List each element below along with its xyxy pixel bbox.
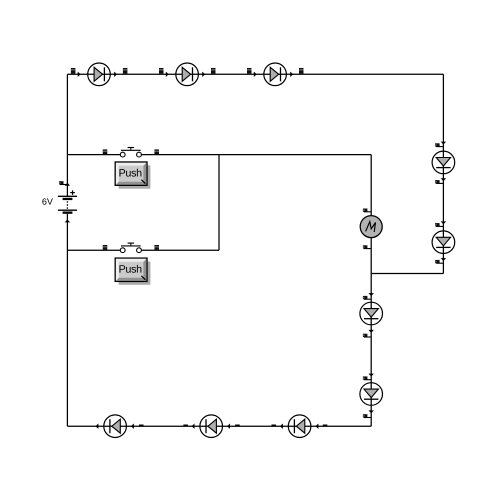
wire top (battery+ to right side) bbox=[67, 73, 443, 75]
push button widget SW1 bbox=[115, 162, 150, 189]
motor M1 bbox=[360, 216, 382, 238]
push button widget SW2 bbox=[115, 258, 150, 285]
current arrow before D3 bbox=[254, 72, 257, 77]
terminal marker battery positive bbox=[59, 181, 67, 184]
terminal marker D7 anode bbox=[363, 376, 371, 379]
terminal marker D6 cathode bbox=[363, 334, 371, 337]
terminal marker D6 anode bbox=[363, 296, 371, 299]
diode D10 bbox=[288, 415, 311, 438]
diode D3 bbox=[264, 63, 287, 86]
diode D1 bbox=[88, 63, 111, 86]
terminal marker D2 cathode bbox=[211, 68, 216, 74]
diode D4 bbox=[432, 151, 455, 174]
terminal marker SW2 left bbox=[103, 245, 108, 250]
current arrow before D10 bbox=[315, 424, 318, 429]
current arrow before D4 bbox=[441, 142, 446, 145]
terminal marker D10 cathode bbox=[272, 425, 277, 427]
terminal marker SW1 right bbox=[154, 149, 159, 154]
current arrow after D4 bbox=[441, 178, 446, 181]
diode D7 bbox=[360, 383, 383, 406]
current arrow before D6 bbox=[369, 293, 374, 296]
terminal marker D5 cathode bbox=[435, 260, 443, 263]
terminal marker D3 cathode bbox=[299, 68, 304, 74]
terminal marker D4 anode bbox=[435, 143, 443, 146]
terminal marker SW2 right bbox=[154, 245, 159, 250]
current arrow before D9 bbox=[227, 424, 230, 429]
terminal marker D3 anode bbox=[247, 68, 252, 74]
terminal marker D5 anode bbox=[435, 223, 443, 226]
terminal marker SW1 left bbox=[103, 149, 108, 154]
diode D9 bbox=[200, 415, 223, 438]
terminal marker D8 anode bbox=[139, 425, 144, 427]
wire inner vertical (parallel link between switch branches) bbox=[218, 155, 220, 251]
push switch SW2 contacts bbox=[120, 243, 141, 253]
wire connector (right vertical to motor branch) bbox=[371, 273, 443, 275]
terminal marker M1 top bbox=[363, 209, 371, 212]
diode D2 bbox=[176, 63, 199, 86]
terminal marker D1 cathode bbox=[123, 68, 128, 74]
current arrow after D9 bbox=[192, 424, 195, 429]
current arrow above battery bbox=[65, 183, 70, 186]
wire motor branch vertical bbox=[370, 155, 372, 427]
current arrow after D10 bbox=[280, 424, 283, 429]
wire right vertical bbox=[442, 74, 444, 273]
terminal marker M1 bottom bbox=[363, 245, 371, 248]
current arrow after D3 bbox=[290, 72, 293, 77]
diode D6 bbox=[360, 302, 383, 325]
diode D5 bbox=[432, 231, 455, 254]
terminal marker D4 cathode bbox=[435, 180, 443, 183]
wire switch-1 branch left segment bbox=[67, 154, 120, 156]
terminal marker D9 cathode bbox=[183, 425, 188, 427]
current arrow after D7 bbox=[369, 410, 374, 413]
wire switch-1 branch right segment (to motor branch) bbox=[141, 154, 371, 156]
current arrow before D8 bbox=[131, 424, 134, 429]
terminal marker D10 anode bbox=[323, 425, 328, 427]
push switch SW1 contacts bbox=[120, 148, 141, 158]
current arrow after D6 bbox=[369, 330, 374, 333]
wire bottom bbox=[67, 425, 371, 427]
current arrow below battery bbox=[65, 219, 70, 222]
terminal marker D9 anode bbox=[235, 425, 240, 427]
current arrow after D1 bbox=[114, 72, 117, 77]
current arrow before D2 bbox=[166, 72, 169, 77]
current arrow before D7 bbox=[369, 374, 374, 377]
terminal marker D2 anode bbox=[159, 68, 164, 74]
current arrow after D2 bbox=[202, 72, 205, 77]
current arrow before D5 bbox=[441, 221, 446, 224]
wire left vertical lower (battery- down to bottom wire) bbox=[66, 214, 68, 427]
terminal marker D7 cathode bbox=[363, 414, 371, 417]
terminal marker D1 anode bbox=[71, 68, 76, 74]
current arrow before D1 bbox=[78, 72, 81, 77]
battery plus sign bbox=[70, 190, 75, 195]
wire switch-2 branch left segment bbox=[67, 249, 120, 251]
diode D8 bbox=[104, 415, 127, 438]
current arrow after D5 bbox=[441, 258, 446, 261]
wire switch-2 branch right segment bbox=[141, 249, 219, 251]
battery B1 6V bbox=[58, 196, 77, 212]
current arrow after D8 bbox=[95, 424, 98, 429]
battery value label 6V bbox=[42, 198, 53, 204]
wire left vertical upper (battery+ up to top wire) bbox=[66, 74, 68, 196]
